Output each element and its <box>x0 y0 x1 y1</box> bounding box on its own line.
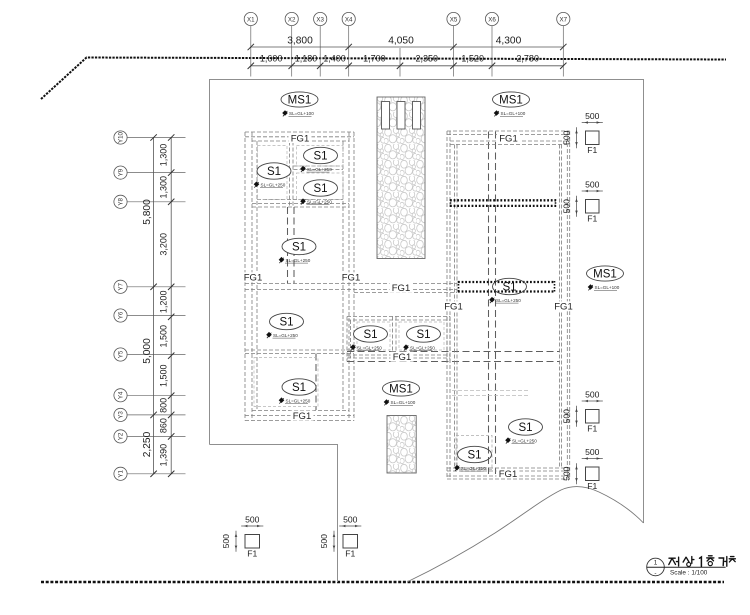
svg-text:SL=GL+250: SL=GL+250 <box>261 182 286 187</box>
svg-text:S1: S1 <box>416 329 430 341</box>
footing band y350 left-building <box>245 349 354 351</box>
site boundary top (thick dashed) <box>41 58 726 100</box>
footing FG1 band bottom left-building <box>245 415 354 417</box>
elevation mark SL=GL+250 <box>279 257 311 263</box>
svg-text:FG1: FG1 <box>499 133 517 144</box>
svg-text:2,350: 2,350 <box>416 53 439 63</box>
svg-text:860: 860 <box>159 418 169 433</box>
wire extension line x400 <box>399 48 401 77</box>
elevation mark SL=GL+100 <box>494 110 526 116</box>
svg-text:F1: F1 <box>587 145 597 155</box>
elevation mark SL=GL+250 <box>505 437 537 443</box>
svg-text:X6: X6 <box>488 16 496 23</box>
svg-text:3,800: 3,800 <box>287 36 313 47</box>
label S1 ellipse <box>270 313 304 329</box>
svg-text:1,500: 1,500 <box>159 325 169 348</box>
dimension line inner Y <box>170 138 172 474</box>
footing F1 right-2 <box>586 200 600 224</box>
inner room outline upper-right2 <box>297 173 344 200</box>
wall divider connector middle <box>392 317 394 362</box>
svg-text:500: 500 <box>585 447 600 457</box>
svg-text:S1: S1 <box>267 166 281 178</box>
grid line Y3 <box>114 408 186 421</box>
footing left-building outer edge left <box>244 132 246 421</box>
grid line Y1 <box>114 467 186 480</box>
svg-text:-: - <box>654 570 656 577</box>
label MS1 ellipse <box>383 381 420 396</box>
small dashed rect lower right-building <box>456 436 492 470</box>
svg-text:1,700: 1,700 <box>363 53 386 63</box>
svg-text:Y9: Y9 <box>118 168 125 176</box>
svg-text:F1: F1 <box>247 549 257 559</box>
svg-text:SL=GL+100: SL=GL+100 <box>391 400 416 405</box>
svg-text:1,180: 1,180 <box>295 53 318 63</box>
svg-text:3,200: 3,200 <box>159 233 169 256</box>
elevation mark SL=GL+100 <box>384 399 416 405</box>
svg-text:SL=GL+100: SL=GL+100 <box>501 111 526 116</box>
svg-text:Y3: Y3 <box>118 411 125 419</box>
svg-text:500: 500 <box>585 180 600 190</box>
wall corridor heavy pair left-building <box>287 207 289 284</box>
dimension line outer Y <box>153 138 155 474</box>
svg-text:MS1: MS1 <box>593 269 617 281</box>
elevation mark SL=GL+100 <box>588 284 620 290</box>
wall divider x291 upper left-building <box>289 142 291 208</box>
svg-text:500: 500 <box>245 515 260 525</box>
svg-text:SL=GL+100: SL=GL+100 <box>289 111 314 116</box>
svg-text:SL=GL+250: SL=GL+250 <box>286 398 311 403</box>
svg-text:X3: X3 <box>316 16 324 23</box>
label S1 ellipse <box>354 326 388 342</box>
svg-text:Y8: Y8 <box>118 197 125 205</box>
svg-text:4,300: 4,300 <box>496 36 522 47</box>
svg-text:500: 500 <box>562 130 572 145</box>
grid line Y8 <box>114 195 186 208</box>
footing left-building inner edge right <box>342 141 344 411</box>
label S1 ellipse <box>304 147 338 163</box>
svg-text:S1: S1 <box>502 282 516 294</box>
inner room outline connector-left <box>357 322 390 350</box>
svg-text:SL=GL+250: SL=GL+250 <box>357 345 382 350</box>
svg-text:S1: S1 <box>313 183 327 195</box>
svg-text:S1: S1 <box>279 317 293 329</box>
svg-text:Y5: Y5 <box>118 350 125 358</box>
grid line Y2 <box>114 430 186 443</box>
svg-text:Y1: Y1 <box>118 469 125 477</box>
inner room outline lower <box>254 358 318 407</box>
title text 지상 1층 기초 (drawn strokes) <box>669 556 736 567</box>
svg-text:1,500: 1,500 <box>159 364 169 387</box>
elevation mark SL=GL+250 <box>403 344 435 350</box>
inner room outline upper-left <box>258 146 288 200</box>
grid line X3 <box>314 12 327 76</box>
label S1 ellipse <box>407 326 441 342</box>
site boundary bottom (thick dashed) <box>41 581 724 584</box>
svg-text:SL=GL+250: SL=GL+250 <box>307 199 332 204</box>
svg-text:1,600: 1,600 <box>260 53 283 63</box>
svg-text:Y7: Y7 <box>118 282 125 290</box>
svg-text:500: 500 <box>562 466 572 481</box>
hatched stair pad large <box>377 97 425 259</box>
svg-text:SL=GL+100: SL=GL+100 <box>595 285 620 290</box>
svg-text:Y2: Y2 <box>118 432 125 440</box>
inner room outline upper-right1 <box>297 146 344 167</box>
footing right-building outer edge left <box>446 131 448 479</box>
svg-text:Y6: Y6 <box>118 311 125 319</box>
svg-text:FG1: FG1 <box>293 411 311 422</box>
svg-text:MS1: MS1 <box>499 95 523 107</box>
label MS1 ellipse <box>281 92 318 107</box>
svg-text:5,800: 5,800 <box>142 199 153 225</box>
footing left-building outer edge right <box>348 132 350 421</box>
svg-text:SL=GL+250: SL=GL+250 <box>410 345 435 350</box>
svg-text:2,250: 2,250 <box>142 431 153 457</box>
footing F1 bottom-1 <box>245 535 260 559</box>
grid line X6 <box>485 12 498 76</box>
footing connector band bottom FG1 <box>347 351 560 353</box>
svg-text:500: 500 <box>221 534 231 549</box>
plan outline with contour curve <box>210 80 644 524</box>
label FG1 <box>291 411 314 422</box>
svg-text:1,390: 1,390 <box>159 444 169 467</box>
label S1 ellipse <box>282 238 316 254</box>
svg-text:500: 500 <box>562 199 572 214</box>
label FG1 <box>242 272 265 283</box>
label S1 ellipse <box>282 379 316 395</box>
label FG1 <box>289 133 312 144</box>
elevation mark SL=GL+250 <box>454 465 486 471</box>
footing gray band y390 right-building <box>452 390 528 392</box>
svg-text:S1: S1 <box>467 450 481 462</box>
svg-text:X5: X5 <box>450 16 458 23</box>
stair opening 2 <box>397 102 405 130</box>
dotted strip band 1 <box>450 199 556 207</box>
svg-text:SL=GL+250: SL=GL+250 <box>496 298 521 303</box>
grid line Y4 <box>114 389 186 402</box>
svg-text:1: 1 <box>654 560 658 567</box>
svg-text:500: 500 <box>562 409 572 424</box>
footing F1 right-1 <box>586 131 600 155</box>
svg-text:FG1: FG1 <box>499 469 517 480</box>
site contour curve <box>407 487 644 582</box>
label FG1 <box>497 469 520 480</box>
svg-text:X2: X2 <box>288 16 296 23</box>
svg-text:SL=GL+250: SL=GL+250 <box>307 167 332 172</box>
svg-text:Y10: Y10 <box>118 131 125 143</box>
svg-text:S1: S1 <box>292 382 306 394</box>
footing F1 right-3 <box>586 410 600 434</box>
hatched ramp pad small <box>387 416 416 474</box>
grid line Y10 <box>114 131 186 144</box>
stair opening 3 <box>413 102 421 130</box>
svg-text:FG1: FG1 <box>392 283 410 294</box>
grid line X7 <box>557 12 570 76</box>
grid line Y7 <box>114 280 186 293</box>
svg-text:500: 500 <box>319 534 329 549</box>
footing FG1 band y286 across <box>245 283 457 285</box>
label FG1 <box>497 133 520 144</box>
footing F1 right-4 <box>586 467 600 491</box>
label FG1 <box>552 301 575 312</box>
elevation mark SL=GL+250 <box>254 181 286 187</box>
svg-text:1,400: 1,400 <box>323 53 346 63</box>
grid line X1 <box>244 12 257 76</box>
label FG1 <box>391 352 414 363</box>
wall center heavy pair right-building <box>488 132 490 475</box>
svg-text:SL=GL+250: SL=GL+250 <box>461 466 486 471</box>
grid line Y9 <box>114 166 186 179</box>
svg-text:FG1: FG1 <box>554 302 572 313</box>
svg-text:X1: X1 <box>247 16 255 23</box>
svg-text:F1: F1 <box>587 424 597 434</box>
svg-text:Scale : 1/100: Scale : 1/100 <box>670 570 708 577</box>
label S1 ellipse <box>493 278 527 294</box>
title underline <box>647 566 726 568</box>
footing FG1 band bottom right-building <box>447 467 570 469</box>
label FG1 <box>390 283 413 294</box>
footing connector room outline <box>347 316 450 318</box>
grid line Y5 <box>114 348 186 361</box>
dimension line row1 X <box>251 46 564 48</box>
wall divider y168 left-building <box>294 165 344 167</box>
svg-text:1,200: 1,200 <box>159 291 169 314</box>
label S1 ellipse <box>257 163 291 179</box>
svg-text:F1: F1 <box>587 481 597 491</box>
svg-text:1,520: 1,520 <box>461 53 484 63</box>
svg-text:S1: S1 <box>518 422 532 434</box>
label S1 ellipse <box>509 419 543 435</box>
svg-text:F1: F1 <box>345 549 355 559</box>
label S1 ellipse <box>458 446 492 462</box>
elevation mark SL=GL+250 <box>300 166 332 172</box>
elevation mark SL=GL+250 <box>350 344 382 350</box>
svg-text:Y4: Y4 <box>118 391 125 399</box>
elevation mark SL=GL+250 <box>489 297 521 303</box>
footing FG1 band top left-building <box>245 131 354 133</box>
inner room outline connector-right <box>399 322 444 350</box>
svg-text:2,780: 2,780 <box>516 53 539 63</box>
label MS1 ellipse <box>587 266 624 281</box>
svg-text:800: 800 <box>159 398 169 413</box>
footing right-building outer edge right <box>566 131 568 479</box>
label MS1 ellipse <box>493 92 530 107</box>
svg-text:1,300: 1,300 <box>159 176 169 199</box>
grid line X5 <box>447 12 460 76</box>
dimension line row2 X <box>251 65 564 67</box>
grid line X4 <box>342 12 355 76</box>
svg-text:500: 500 <box>585 390 600 400</box>
svg-text:SL=GL+250: SL=GL+250 <box>273 333 298 338</box>
svg-text:S1: S1 <box>313 151 327 163</box>
title block drawing number circle <box>647 558 665 577</box>
elevation mark SL=GL+250 <box>266 332 298 338</box>
label S1 ellipse <box>304 180 338 196</box>
svg-text:MS1: MS1 <box>389 384 413 396</box>
footing right-building inner edge right <box>559 145 561 469</box>
svg-text:MS1: MS1 <box>288 95 312 107</box>
svg-text:FG1: FG1 <box>342 273 360 284</box>
svg-text:S1: S1 <box>363 329 377 341</box>
stair opening 1 <box>382 102 390 130</box>
footing right-building inner edge left <box>454 145 456 469</box>
wall heavy x321 lower room <box>315 354 317 411</box>
svg-text:4,050: 4,050 <box>388 36 414 47</box>
elevation mark SL=GL+250 <box>279 397 311 403</box>
svg-text:500: 500 <box>343 515 358 525</box>
svg-text:FG1: FG1 <box>444 302 462 313</box>
svg-text:X4: X4 <box>345 16 353 23</box>
svg-text:FG1: FG1 <box>393 352 411 363</box>
svg-text:FG1: FG1 <box>291 133 309 144</box>
label FG1 <box>340 272 363 283</box>
footing F1 bottom-2 <box>343 535 358 559</box>
svg-text:500: 500 <box>585 111 600 121</box>
footing FG1 band top right-building <box>447 130 570 132</box>
svg-text:SL=GL+250: SL=GL+250 <box>286 258 311 263</box>
dotted strip band 2 <box>458 281 555 293</box>
svg-text:1,300: 1,300 <box>159 144 169 167</box>
grid line X2 <box>285 12 298 76</box>
svg-text:F1: F1 <box>587 214 597 224</box>
footing left-building inner edge left <box>256 141 258 411</box>
svg-text:5,000: 5,000 <box>142 338 153 364</box>
label FG1 <box>442 301 465 312</box>
grid line Y6 <box>114 309 186 322</box>
elevation mark SL=GL+250 <box>300 198 332 204</box>
elevation mark SL=GL+100 <box>282 110 314 116</box>
svg-text:FG1: FG1 <box>244 273 262 284</box>
svg-text:X7: X7 <box>560 16 568 23</box>
footing band mid y205 left-building <box>252 203 349 205</box>
svg-text:SL=GL+250: SL=GL+250 <box>512 438 537 443</box>
svg-text:S1: S1 <box>292 242 306 254</box>
